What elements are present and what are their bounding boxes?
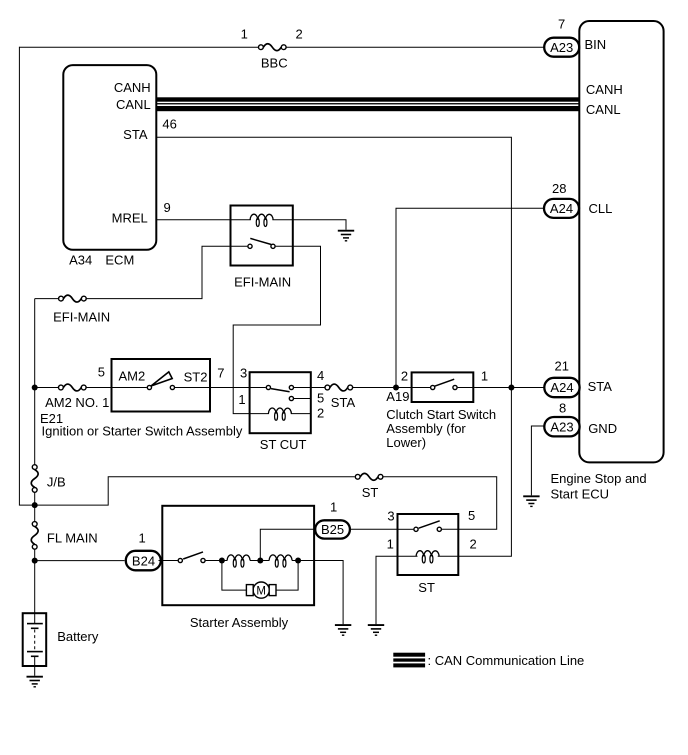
- starter assembly box: [162, 506, 314, 605]
- wire ST relay coil to ground: [376, 556, 398, 624]
- svg-text:J/B: J/B: [47, 474, 66, 489]
- relay ST box: [398, 514, 459, 575]
- wire CLL branch to A24 pin 28: [396, 208, 544, 387]
- battery internal top lead: [34, 613, 36, 623]
- battery plate short top: [31, 627, 39, 629]
- svg-text:CLL: CLL: [589, 201, 613, 216]
- svg-text:Engine Stop and: Engine Stop and: [551, 471, 647, 486]
- connector A24 STA: [544, 378, 579, 397]
- battery internal bottom lead: [34, 656, 36, 666]
- wire clutch switch to A24 STA: [473, 387, 543, 389]
- svg-text:1: 1: [139, 530, 146, 545]
- coil ST CUT relay: [268, 408, 291, 420]
- svg-text:STA: STA: [331, 395, 356, 410]
- svg-text:5: 5: [468, 508, 475, 523]
- wire BBC to connector A23 BIN: [286, 46, 544, 48]
- ECM box A34: [63, 65, 156, 250]
- wire B25 branch: [260, 529, 316, 560]
- svg-text:CANH: CANH: [114, 80, 151, 95]
- switch blade clutch: [435, 379, 455, 386]
- ground starter assembly: [335, 625, 351, 635]
- svg-text:1: 1: [238, 392, 245, 407]
- Engine Stop and Start ECU box: [579, 21, 663, 462]
- wire battery to ground: [34, 666, 36, 676]
- svg-text:BBC: BBC: [261, 56, 288, 71]
- svg-text:BIN: BIN: [585, 37, 607, 52]
- svg-text:Ignition or Starter Switch Ass: Ignition or Starter Switch Assembly: [42, 424, 243, 439]
- fuse STA: [325, 384, 353, 391]
- svg-text:CANH: CANH: [586, 82, 623, 97]
- fuse ST: [355, 473, 383, 480]
- wire ST fuse to ST relay pin 5: [383, 477, 496, 530]
- svg-text:2: 2: [296, 27, 303, 42]
- node starter feed junction: [32, 558, 38, 564]
- svg-text:EFI-MAIN: EFI-MAIN: [234, 275, 291, 290]
- switch contact clutch left: [431, 385, 435, 389]
- wire starter motor right branch: [276, 561, 298, 591]
- svg-text:28: 28: [552, 181, 566, 196]
- svg-text:ST: ST: [418, 580, 435, 595]
- wire ECM MREL to EFI-MAIN relay coil: [156, 219, 251, 221]
- wire B24 to starter switch: [159, 560, 178, 562]
- wire between starter coils: [250, 560, 269, 562]
- wire EFI-MAIN relay switch right: [276, 245, 293, 247]
- wire battery junction to B24: [35, 560, 125, 562]
- wire ST relay switch internal right: [442, 528, 458, 530]
- ground battery: [27, 677, 43, 687]
- svg-text:STA: STA: [123, 127, 148, 142]
- wire clutch switch internal left: [412, 387, 431, 389]
- svg-text:MREL: MREL: [112, 211, 148, 226]
- junction J/B: [31, 465, 38, 493]
- switch blade ignition key: [151, 372, 172, 386]
- connector A23 GND: [544, 417, 579, 436]
- node battery junction: [32, 502, 38, 508]
- svg-text:8: 8: [559, 400, 566, 415]
- coil starter hold-in: [227, 555, 250, 567]
- switch blade EFI-MAIN relay: [250, 238, 271, 244]
- wire ST CUT pin 5 stub: [294, 398, 311, 400]
- wire ECM STA pin 46 to node and ST relay pin 2: [156, 137, 511, 556]
- switch contact ignition AM2: [147, 385, 151, 389]
- wire ST CUT coil internal right: [291, 413, 311, 415]
- wire ST CUT coil internal left: [250, 413, 269, 415]
- svg-text:Starter Assembly: Starter Assembly: [190, 615, 289, 630]
- node starter motor left junction: [219, 558, 225, 564]
- coil EFI-MAIN relay: [250, 214, 273, 226]
- switch contact clutch right: [453, 385, 457, 389]
- ground EFI-MAIN relay: [338, 231, 354, 241]
- battery plate short bottom: [31, 655, 39, 657]
- svg-text:5: 5: [98, 364, 105, 379]
- svg-text:4: 4: [317, 368, 324, 383]
- switch contact ST CUT common: [266, 385, 270, 389]
- node AM2 row junction: [32, 385, 38, 391]
- switch contact ST relay right: [437, 527, 441, 531]
- svg-text:3: 3: [240, 365, 247, 380]
- svg-text:ST2: ST2: [184, 370, 208, 385]
- svg-text:1: 1: [330, 500, 337, 515]
- node starter motor right junction: [295, 558, 301, 564]
- svg-text:ST: ST: [362, 485, 379, 500]
- svg-text:AM2: AM2: [119, 368, 146, 383]
- svg-text:A34: A34: [69, 252, 92, 267]
- fuse AM2 NO. 1: [59, 384, 87, 391]
- node STA junction: [508, 385, 514, 391]
- wire ignition to ST CUT relay: [210, 387, 250, 389]
- svg-text:1: 1: [387, 537, 394, 552]
- svg-text:Battery: Battery: [57, 629, 99, 644]
- wire EFI-MAIN relay coil to ground: [272, 220, 346, 230]
- fuse BBC: [259, 44, 287, 51]
- svg-text:Clutch Start Switch: Clutch Start Switch: [386, 407, 496, 422]
- ignition switch box: [112, 359, 211, 412]
- svg-text:GND: GND: [588, 421, 617, 436]
- svg-text:A23: A23: [550, 419, 573, 434]
- wire ignition switch internal right: [175, 387, 210, 389]
- wire ST CUT switch internal right: [294, 387, 311, 389]
- svg-text:9: 9: [164, 200, 171, 215]
- svg-text:Start ECU: Start ECU: [551, 486, 610, 501]
- CAN communication line pair: [156, 97, 579, 101]
- svg-text:AM2 NO. 1: AM2 NO. 1: [45, 395, 109, 410]
- svg-text:A19: A19: [386, 389, 409, 404]
- svg-text:A24: A24: [550, 201, 573, 216]
- svg-text:3: 3: [387, 508, 394, 523]
- switch blade ST relay: [419, 521, 440, 528]
- switch blade ST CUT: [271, 389, 290, 392]
- svg-text:2: 2: [401, 369, 408, 384]
- wire starter motor left branch: [222, 561, 246, 591]
- svg-text:EFI-MAIN: EFI-MAIN: [53, 309, 110, 324]
- svg-text:2: 2: [470, 537, 477, 552]
- wire EFI-MAIN fuse to relay switch: [86, 246, 230, 298]
- node CLL junction: [393, 385, 399, 391]
- svg-text:STA: STA: [588, 379, 613, 394]
- fusible link FL MAIN: [31, 522, 38, 550]
- switch contact EFI-MAIN relay left: [248, 244, 252, 248]
- coil starter pull-in: [269, 555, 292, 567]
- wire starter coil output to ground: [292, 561, 343, 625]
- wire AM2 fuse to ignition switch: [86, 387, 111, 389]
- ground ST relay: [368, 625, 384, 635]
- svg-text:46: 46: [162, 117, 176, 132]
- connector B24: [126, 551, 161, 571]
- legend CAN line swatch: [393, 653, 425, 657]
- svg-text:ECM: ECM: [105, 252, 134, 267]
- wire left battery feed vertical: [19, 47, 354, 505]
- svg-text:1: 1: [241, 27, 248, 42]
- fuse EFI-MAIN: [59, 295, 87, 302]
- svg-text:: CAN Communication Line: : CAN Communication Line: [428, 653, 585, 668]
- wire top feed to fuse BBC: [19, 46, 258, 48]
- svg-text:2: 2: [317, 406, 324, 421]
- svg-text:Lower): Lower): [386, 435, 426, 450]
- wire ST relay coil internal left: [398, 555, 418, 557]
- svg-text:B25: B25: [321, 522, 344, 537]
- switch contact starter left: [178, 558, 182, 562]
- wire J/B to junction: [34, 492, 36, 522]
- switch contact ST CUT pin 4: [289, 385, 293, 389]
- svg-text:A24: A24: [550, 380, 573, 395]
- wire ST CUT to STA fuse: [311, 387, 325, 389]
- svg-text:A23: A23: [550, 40, 573, 55]
- wire A23 GND to ground: [531, 426, 543, 495]
- wire branch vertical to J/B: [34, 299, 36, 465]
- svg-text:CANL: CANL: [586, 102, 621, 117]
- switch contact ignition ST2: [170, 385, 174, 389]
- svg-text:B24: B24: [132, 553, 155, 568]
- svg-text:7: 7: [217, 365, 224, 380]
- svg-text:ST CUT: ST CUT: [260, 437, 307, 452]
- wire ST CUT switch internal left: [250, 387, 266, 389]
- svg-text:M: M: [256, 586, 266, 598]
- battery box: [23, 613, 47, 666]
- connector A23 BIN: [544, 38, 579, 57]
- clutch start switch box: [412, 372, 474, 402]
- wire EFI-MAIN relay output to ST CUT relay coil: [233, 246, 320, 413]
- wire EFI-MAIN relay switch left: [231, 245, 248, 247]
- battery internal dashed link: [34, 630, 36, 651]
- connector B25: [315, 520, 350, 538]
- wire FL MAIN to battery: [34, 549, 36, 613]
- motor starter M: [253, 582, 269, 598]
- node starter B25 junction: [257, 558, 263, 564]
- svg-text:5: 5: [317, 390, 324, 405]
- switch contact ST relay left: [414, 527, 418, 531]
- wire EFI-MAIN fuse branch from left vertical: [35, 298, 59, 300]
- svg-text:1: 1: [481, 369, 488, 384]
- relay EFI-MAIN box: [231, 206, 293, 266]
- wire clutch switch internal right: [458, 387, 474, 389]
- svg-text:7: 7: [558, 16, 565, 31]
- svg-text:CANL: CANL: [116, 97, 151, 112]
- switch blade starter: [183, 552, 203, 559]
- ground ECU GND: [523, 496, 539, 506]
- wire STA fuse to clutch switch: [353, 387, 412, 389]
- svg-text:21: 21: [555, 359, 569, 374]
- relay ST CUT box: [250, 372, 311, 433]
- battery plate long bottom: [27, 651, 43, 653]
- wire starter switch to coil 1: [206, 560, 228, 562]
- svg-text:FL MAIN: FL MAIN: [47, 531, 98, 546]
- wire ST relay coil internal right: [438, 555, 459, 557]
- switch contact EFI-MAIN relay right: [271, 244, 275, 248]
- connector A24 CLL: [544, 199, 579, 218]
- switch contact starter right: [201, 558, 205, 562]
- coil ST relay: [416, 551, 439, 563]
- switch contact ST CUT pin 5: [289, 396, 293, 400]
- wire ignition switch internal left: [112, 387, 147, 389]
- wire B25 to ST relay pin 3: [349, 528, 398, 530]
- battery plate long top: [27, 623, 43, 625]
- wire AM2 row to fuse: [35, 387, 59, 389]
- wire ST relay switch internal left: [398, 528, 414, 530]
- svg-text:Assembly (for: Assembly (for: [386, 421, 466, 436]
